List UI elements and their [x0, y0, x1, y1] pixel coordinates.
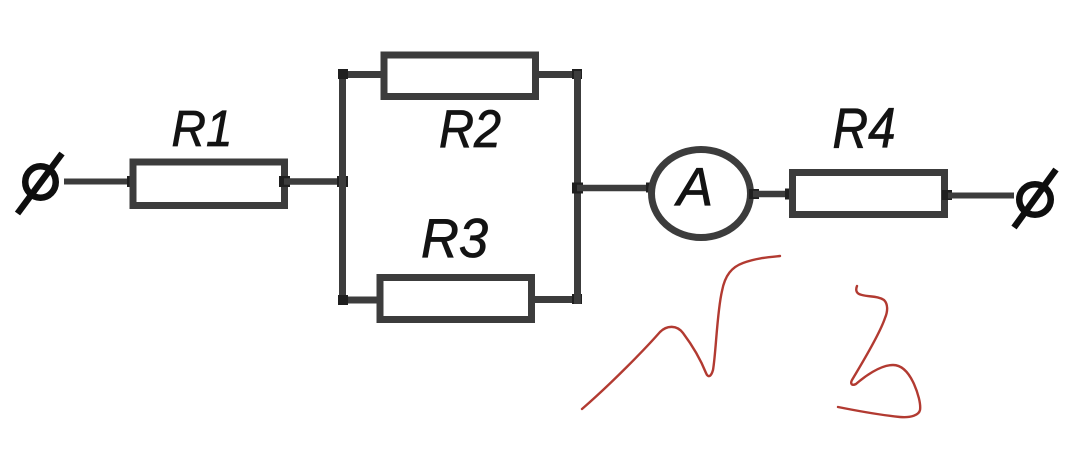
- wire: stub left bus to R3: [339, 297, 380, 304]
- svg-text:R1: R1: [172, 100, 233, 157]
- wire T1 to R1: [64, 179, 133, 185]
- resistor R3: [380, 278, 532, 320]
- wire R4 to terminal T2: [948, 193, 1014, 199]
- node: ammeter left pin: [646, 183, 656, 193]
- svg-text:R2: R2: [439, 100, 501, 159]
- wire: right vertical bus: [574, 71, 581, 304]
- node: R4 right junction: [942, 190, 952, 200]
- node: left bus bottom corner: [338, 295, 348, 305]
- wire: stub R3 to right bus: [531, 296, 581, 303]
- resistor R1: [133, 162, 285, 206]
- red annotation squiggle 2 (right): [838, 286, 920, 417]
- svg-text:A: A: [674, 158, 713, 218]
- node: left bus top corner: [338, 69, 348, 79]
- resistor R2: [384, 55, 536, 97]
- terminal T2 (right open terminal ø): [1014, 170, 1056, 228]
- node: ammeter right pin: [749, 189, 759, 199]
- svg-text:R4: R4: [833, 97, 896, 161]
- node: right bus top corner: [572, 69, 582, 79]
- node B: junction right bus to ammeter wire: [572, 183, 583, 194]
- node: R1 left junction: [127, 176, 138, 187]
- wire: stub R2 to right bus: [535, 71, 581, 78]
- node: R4 left junction: [785, 189, 796, 200]
- wire right bus to ammeter: [577, 185, 653, 192]
- node: R1 right junction: [279, 176, 290, 187]
- svg-text:R3: R3: [421, 207, 488, 269]
- wire: left vertical bus: [339, 71, 346, 304]
- ammeter U1: [652, 150, 751, 238]
- node: right bus bottom corner: [572, 294, 582, 304]
- red annotation squiggle 1 (left): [582, 256, 780, 409]
- wire: stub left bus to R2: [339, 71, 384, 78]
- wire ammeter to R4: [753, 191, 793, 198]
- wire R1 to parallel block: [284, 178, 346, 185]
- terminal T1 (left open terminal ø): [18, 154, 63, 214]
- node A: junction on left bus: [337, 176, 348, 187]
- resistor R4: [793, 173, 945, 215]
